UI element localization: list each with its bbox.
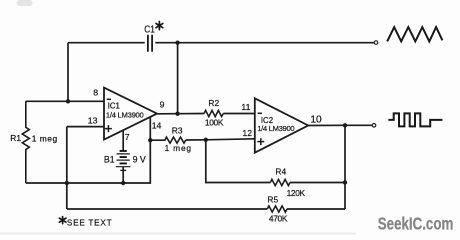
svg-text:SeekIC.com: SeekIC.com — [378, 213, 454, 233]
svg-text:1 meg: 1 meg — [32, 133, 58, 143]
svg-text:14: 14 — [152, 120, 162, 130]
wire IC2 output to terminal — [308, 124, 372, 126]
wire IC1 output to R2 — [157, 113, 204, 115]
wire R4 to output vertical — [290, 182, 345, 184]
scan streak bottom edge — [0, 233, 356, 235]
node: IC1 output junction — [175, 112, 179, 116]
terminal: square output open circle — [372, 124, 376, 128]
svg-text:120K: 120K — [287, 188, 306, 198]
svg-text:13: 13 — [88, 116, 98, 126]
node: C1 / feedback junction — [175, 41, 179, 45]
wire top rail left of C1 — [68, 42, 145, 44]
wire output feedback vertical — [344, 125, 346, 209]
svg-text:9 V: 9 V — [133, 154, 146, 164]
svg-text:10: 10 — [310, 114, 322, 125]
terminal: triangle output open circle — [374, 41, 378, 45]
svg-text:IC1: IC1 — [108, 102, 120, 111]
node: pin 14 / R3 junction — [148, 138, 152, 142]
svg-text:SEE TEXT: SEE TEXT — [67, 219, 112, 228]
resistor R5 470K — [267, 194, 288, 223]
wire left feedback vertical — [67, 43, 69, 102]
svg-text:7: 7 — [125, 132, 130, 142]
resistor R1 1 meg — [10, 101, 57, 183]
svg-text:R5: R5 — [267, 194, 278, 204]
scan smudge top left — [17, 0, 33, 6]
svg-text:1/4 LM3900: 1/4 LM3900 — [257, 124, 294, 133]
svg-text:1/4 LM3900: 1/4 LM3900 — [106, 110, 144, 119]
resistor R3 1 meg — [150, 126, 192, 153]
wire pin 8 input line — [26, 100, 104, 102]
wire vertical from top rail down to IC1 output — [177, 43, 179, 114]
wire pin 13 input line — [67, 126, 104, 128]
svg-text:470K: 470K — [269, 214, 288, 224]
triangle waveform symbol — [387, 27, 442, 41]
node: R4 on output vertical — [343, 180, 347, 184]
wire R5 to output vertical — [287, 208, 345, 210]
svg-text:R2: R2 — [208, 98, 219, 108]
svg-text:11: 11 — [241, 102, 250, 112]
svg-text:100K: 100K — [205, 118, 224, 128]
wire R3 to pin 12 — [186, 139, 255, 140]
node: R3 / R4 branch junction — [204, 138, 208, 142]
wire V+ rail (battery bottom) with corner up to pin 14 — [26, 117, 151, 183]
wire branch down to R4 line — [206, 140, 270, 183]
wire R2 to pin 11 — [223, 113, 255, 115]
square waveform symbol — [388, 113, 442, 126]
op-amp U1 IC1 1/4 LM3900 — [104, 88, 157, 140]
note: see text — [59, 217, 112, 228]
op-amp U2 IC2 1/4 LM3900 — [255, 98, 308, 152]
node: IC2 output junction — [343, 123, 347, 127]
svg-text:12: 12 — [242, 128, 252, 138]
svg-text:R1: R1 — [10, 133, 21, 143]
node: pin13 vertical crossing rail — [65, 181, 69, 185]
svg-text:R4: R4 — [275, 167, 286, 177]
battery B1 9V — [104, 130, 146, 183]
wire pin13/R5 feedback vertical — [66, 127, 68, 209]
svg-text:R3: R3 — [172, 126, 183, 136]
svg-text:8: 8 — [93, 87, 98, 97]
node: pin 8 line junction — [66, 99, 70, 103]
capacitor C1 — [144, 22, 163, 52]
wire top rail right of C1 to output terminal — [155, 42, 374, 44]
resistor R2 100K — [204, 98, 224, 128]
svg-text:9: 9 — [160, 100, 165, 110]
node: battery negative on rail — [121, 181, 125, 185]
svg-text:1 meg: 1 meg — [165, 143, 192, 153]
resistor R4 120K — [270, 167, 305, 199]
wire R5 line from pin13 vertical to zigzag — [67, 208, 267, 210]
svg-text:C1: C1 — [144, 24, 155, 35]
svg-text:B1: B1 — [104, 154, 115, 164]
